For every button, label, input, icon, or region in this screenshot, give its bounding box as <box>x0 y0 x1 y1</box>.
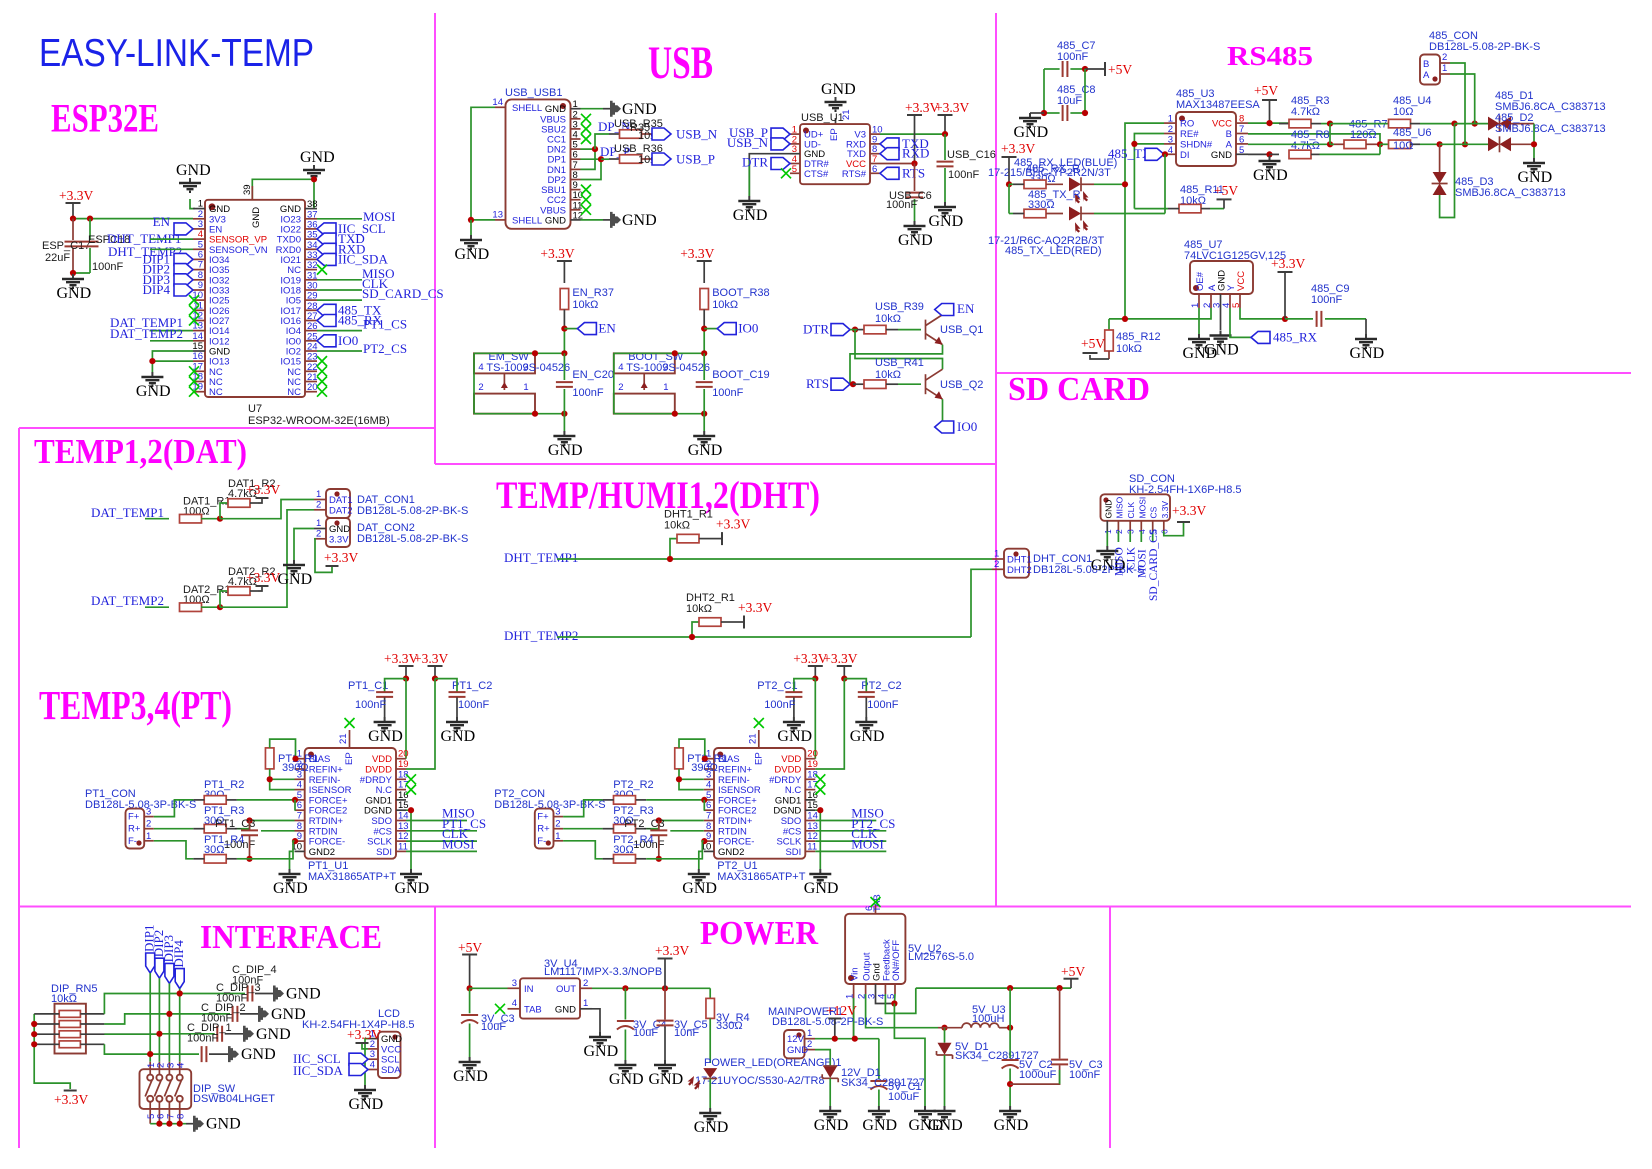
junction <box>166 1121 172 1127</box>
PT2_U1 pin 17 N.C <box>805 789 815 791</box>
power flag +3.3V (RN5) <box>64 1090 77 1092</box>
wire EN node <box>703 329 705 354</box>
ground GND arrow (pin12) <box>603 219 610 221</box>
ground GND (485_C8) <box>1019 113 1041 127</box>
svg-text:SHELL: SHELL <box>512 215 542 226</box>
svg-text:GND: GND <box>300 149 335 166</box>
svg-text:IIC_SDA: IIC_SDA <box>338 251 388 266</box>
junction <box>149 358 155 364</box>
PT2_U1 pin 19 DVDD <box>805 768 815 770</box>
power flag +3.3V (DHT) <box>732 621 744 623</box>
svg-text:BOOT_R38: BOOT_R38 <box>712 287 769 299</box>
ground GND (PT2_C2) <box>855 717 877 731</box>
USB_USB1 pin 3 SBU2 <box>571 128 581 130</box>
capacitor USB_C16 100nF <box>944 134 946 160</box>
svg-text:USB_Q2: USB_Q2 <box>940 379 983 391</box>
485_U7 pin 2 A <box>1210 294 1212 308</box>
wire B row cont <box>1455 123 1489 125</box>
svg-text:4: 4 <box>176 1063 187 1068</box>
wire EN node <box>563 329 565 354</box>
svg-text:10kΩ: 10kΩ <box>712 299 738 311</box>
SD_CON pin 3 CLK <box>1129 521 1131 531</box>
svg-text:100nF: 100nF <box>92 261 123 273</box>
no-connect X (EP) <box>345 718 355 728</box>
wire R3 to A row <box>1329 124 1331 145</box>
PT2_U1 pin 10 GND2 <box>704 850 714 852</box>
svg-text:10kΩ: 10kΩ <box>1116 343 1142 355</box>
no-connect X USB_USB1 pin2 <box>581 114 591 124</box>
resistor USB_R36 10R <box>601 158 609 160</box>
capacitor 5V_C3 100nF <box>1059 988 1061 1059</box>
junction <box>31 1031 37 1037</box>
svg-text:12V: 12V <box>787 1034 805 1045</box>
svg-text:GND: GND <box>898 232 933 249</box>
svg-text:NC: NC <box>287 387 301 398</box>
power flag +3.3V (DHT) <box>710 538 722 540</box>
PT1_U1 pin 16 GND1 <box>396 799 406 801</box>
svg-text:MAX13487EESA: MAX13487EESA <box>1176 99 1260 111</box>
U7 pin 21 NC <box>305 381 317 383</box>
wire CLK (pin30) <box>317 289 362 291</box>
svg-text:+3.3V: +3.3V <box>324 550 358 565</box>
wire DGND to gnd <box>406 810 411 869</box>
U7 pin 27 IO16 <box>305 320 317 322</box>
svg-text:8: 8 <box>176 1114 187 1119</box>
U7 pin 36 IO22 <box>305 228 317 230</box>
wire DN2/DN1 join <box>581 149 596 169</box>
U7 pin 2 3V3 <box>193 218 205 220</box>
U7 pin 30 IO18 <box>305 289 317 291</box>
IC U7 ESP32-WROOM-32E body <box>205 200 305 397</box>
svg-text:DSWB04LHGET: DSWB04LHGET <box>193 1093 275 1105</box>
wire RN row1 to cap row1 <box>104 994 179 1014</box>
net flag DIP2 (pin7) <box>174 264 193 276</box>
svg-text:NC: NC <box>209 387 223 398</box>
ground GND (SD_CON) <box>1096 546 1118 560</box>
svg-text:21: 21 <box>338 733 349 744</box>
svg-text:GND: GND <box>57 285 92 302</box>
wire to gnd <box>703 414 705 431</box>
junction <box>147 1051 153 1057</box>
PT1_U1 pin 9 FORCE- <box>295 840 305 842</box>
SD_CON pin 4 MOSI <box>1140 521 1142 531</box>
svg-text:+3.3V: +3.3V <box>738 600 772 615</box>
wire SDI MOSI <box>406 850 477 852</box>
svg-text:3.3V: 3.3V <box>329 535 349 546</box>
wire cap row 2 <box>169 1013 230 1015</box>
5V_U2 pin 5 ON#/OFF <box>894 984 896 994</box>
svg-text:8: 8 <box>1239 114 1244 125</box>
wire DVDD rail <box>815 679 844 769</box>
power flag +5V (485_C7) <box>1085 68 1105 70</box>
wire DHT_TEMP1 row <box>557 558 971 560</box>
no-connect X pin5 <box>781 168 791 178</box>
svg-text:+3.3V: +3.3V <box>680 246 714 261</box>
junction <box>592 146 598 152</box>
junction <box>468 217 474 223</box>
svg-text:SK34_C2891727: SK34_C2891727 <box>841 1077 925 1089</box>
svg-text:TS-1009S-04526: TS-1009S-04526 <box>626 362 710 374</box>
USB_USB1 pin 1 GND <box>571 108 581 110</box>
junction <box>217 604 223 610</box>
svg-text:GND: GND <box>850 728 885 745</box>
PT1_U1 pin 2 REFIN+ <box>295 768 305 770</box>
U7 pin 32 NC <box>305 269 317 271</box>
USB_U1 pin 2 UD- <box>790 143 800 145</box>
485_U7 pin 4 Y <box>1229 294 1231 308</box>
svg-text:F+: F+ <box>537 812 549 823</box>
wire RTDIN stub <box>670 830 704 832</box>
wire PT2_CS (pin24) <box>317 350 362 352</box>
svg-text:VCC: VCC <box>1236 271 1247 291</box>
ground GND (PT1_U1 DGND) <box>400 869 422 883</box>
svg-text:EN_C20: EN_C20 <box>572 369 614 381</box>
485_CON pin 1 A <box>1440 73 1450 75</box>
svg-text:+3.3V: +3.3V <box>347 1027 381 1042</box>
wire Q1 emitter to RTS node <box>850 345 943 385</box>
U7 pin 4 SENSOR_VP <box>193 238 205 240</box>
svg-text:GND: GND <box>349 1096 384 1113</box>
wire Y to 485_RX flag <box>1230 308 1251 337</box>
svg-text:DHT1: DHT1 <box>1007 555 1032 566</box>
svg-text:POWER_LED(OREANGE)1: POWER_LED(OREANGE)1 <box>704 1057 842 1069</box>
wire DHT1 to CON pin1 <box>971 558 992 560</box>
U7 pin 12 IO27 <box>193 320 205 322</box>
svg-text:+3.3V: +3.3V <box>246 482 280 497</box>
ground GND (5V_U2) <box>914 1106 936 1120</box>
svg-text:7: 7 <box>1239 124 1244 135</box>
junction <box>1082 110 1088 116</box>
U7 pin 15 GND <box>193 350 205 352</box>
DIP_RN5 resistor 4 <box>59 1041 80 1048</box>
svg-text:B: B <box>1423 59 1429 70</box>
svg-text:MOSI: MOSI <box>1137 497 1147 519</box>
svg-text:PT1_CS: PT1_CS <box>363 317 407 332</box>
wire cap row 1 <box>180 993 245 995</box>
junction <box>532 411 538 417</box>
svg-text:330Ω: 330Ω <box>716 1020 743 1032</box>
junction <box>817 807 823 813</box>
wire 12V row <box>815 1038 879 1040</box>
wire VCC row <box>1248 122 1289 124</box>
svg-text:GND: GND <box>286 986 321 1003</box>
ground GND (3V_C3) <box>459 1057 481 1071</box>
DIP_RN5 resistor 1 <box>59 1011 80 1018</box>
junction <box>1377 141 1383 147</box>
DIP_SW pole 3 <box>168 1062 170 1074</box>
svg-text:100nF: 100nF <box>712 387 743 399</box>
svg-text:A: A <box>1226 139 1233 150</box>
svg-text:GND: GND <box>256 1026 291 1043</box>
wire R1 bottom to REFIN-/ISENSOR <box>679 769 704 790</box>
485_U7 pin 3 GND <box>1220 294 1222 308</box>
PT1_U1 pin 4 ISENSOR <box>295 789 305 791</box>
svg-text:IN: IN <box>524 984 534 995</box>
svg-text:1: 1 <box>1168 114 1173 125</box>
svg-text:+3.3V: +3.3V <box>246 570 280 585</box>
svg-text:GND: GND <box>688 442 723 459</box>
wire pin15 GND <box>152 351 193 372</box>
junction <box>1327 121 1333 127</box>
no-connect X pin10 <box>189 295 199 305</box>
net flag IO0 <box>704 328 717 330</box>
svg-text:EASY-LINK-TEMP: EASY-LINK-TEMP <box>39 32 314 75</box>
U7 pin 16 IO13 <box>193 360 205 362</box>
U7 pin 28 IO17 <box>305 309 317 311</box>
svg-text:4: 4 <box>512 998 517 1009</box>
wire A row to U4/U6 <box>1330 143 1334 145</box>
wire switch bottom <box>614 413 704 415</box>
svg-text:485_U6: 485_U6 <box>1393 127 1432 139</box>
resistor USB_R41 10k <box>853 383 864 385</box>
svg-text:USB: USB <box>648 37 713 89</box>
wire DIP2 column <box>158 978 160 1062</box>
U7 pin 13 IO14 <box>193 330 205 332</box>
wire +5V node down <box>1009 988 1011 1058</box>
junction <box>156 1031 162 1037</box>
wire cap row 4 <box>150 1053 199 1055</box>
svg-text:USB_P: USB_P <box>676 152 715 167</box>
svg-text:3.3V: 3.3V <box>1160 501 1170 519</box>
svg-text:GND: GND <box>206 1116 241 1133</box>
ground GND arrow (pin1) <box>603 108 610 110</box>
U7 pin 35 TXD0 <box>305 238 317 240</box>
net flag EN (Q1 collector) <box>935 304 954 316</box>
USB_USB1 pin 4 CC1 <box>571 138 581 140</box>
3V_U4 pin 4 TAB <box>508 1008 521 1010</box>
svg-text:SMBJ6.8CA_C383713: SMBJ6.8CA_C383713 <box>1455 187 1566 199</box>
svg-text:MAX31865ATP+T: MAX31865ATP+T <box>308 871 396 883</box>
wire DIP3 column <box>168 983 170 1061</box>
svg-text:100nF: 100nF <box>764 699 795 711</box>
svg-text:GND: GND <box>777 728 812 745</box>
USB_USB1 pin 5 DN2 <box>571 148 581 150</box>
connector DHT_CON1 body <box>1004 549 1029 578</box>
junction <box>1162 151 1168 157</box>
resistor 485_TX_R 330R <box>1009 213 1013 215</box>
PT2_U1 pin 4 ISENSOR <box>704 789 714 791</box>
svg-text:EN: EN <box>153 214 171 229</box>
svg-text:DAT_TEMP2: DAT_TEMP2 <box>110 326 183 341</box>
PT2_CON pin 1 F- <box>554 840 564 842</box>
PT2_U1 pin 20 VDD <box>805 758 815 760</box>
wire A row <box>1248 143 1330 145</box>
USB_U1 pin 10 V3 <box>870 133 880 135</box>
svg-text:20: 20 <box>307 382 318 393</box>
U7 pin 19 NC <box>193 391 205 393</box>
junction <box>676 776 682 782</box>
svg-text:R+: R+ <box>537 824 550 835</box>
wire c7/c8 left <box>1043 69 1045 113</box>
junction <box>672 411 678 417</box>
USB_U1 pin 5 CTS# <box>790 172 800 174</box>
USB_U1 pin 3 GND <box>790 153 800 155</box>
junction <box>891 1000 897 1006</box>
wire c7/c8 right <box>1084 69 1086 113</box>
pin 39 GND top <box>251 186 253 200</box>
wire Vin to +12V rail <box>853 994 855 1039</box>
wire DAT_TEMP1 to pin13 <box>150 330 193 332</box>
junction <box>292 838 298 844</box>
svg-text:DIP4: DIP4 <box>143 282 171 297</box>
power flag +5V (485_R11) <box>1223 199 1225 208</box>
svg-text:+3.3V: +3.3V <box>935 100 969 115</box>
PT1_U1 pin 1 BIAS <box>295 758 305 760</box>
pin 21 EP top <box>349 730 351 748</box>
ground GND arrow (DIP_SW) <box>186 1123 193 1125</box>
wire 3V3 net <box>73 218 193 220</box>
svg-text:CS: CS <box>1149 506 1159 518</box>
wire DIP1 column <box>149 973 151 1062</box>
net flag DIP4 (pin9) <box>174 284 193 296</box>
capacitor USB_C6 100nF <box>914 164 916 192</box>
svg-text:485_R12: 485_R12 <box>1116 331 1161 343</box>
SD_CON pin 5 CS <box>1152 521 1154 531</box>
svg-text:IIC_SDA: IIC_SDA <box>293 1063 343 1078</box>
PT1_U1 pin 14 SDO <box>396 820 406 822</box>
svg-text:+3.3V: +3.3V <box>823 651 857 666</box>
svg-text:+3.3V: +3.3V <box>1001 141 1035 156</box>
PT2_U1 pin 16 GND1 <box>805 799 815 801</box>
svg-text:+5V: +5V <box>1108 62 1132 77</box>
wire B row <box>1248 134 1380 144</box>
svg-text:GND: GND <box>584 1043 619 1060</box>
junction <box>467 985 473 991</box>
resistor 485_R8 4.7k body <box>1270 153 1280 155</box>
no-connect X pin20 <box>317 387 327 397</box>
svg-text:1: 1 <box>1442 63 1447 74</box>
3V_U4 pin 3 IN <box>508 987 521 989</box>
svg-text:1: 1 <box>316 518 321 529</box>
net flag USB_P <box>652 153 671 165</box>
svg-text:1: 1 <box>807 1028 812 1039</box>
485_U3 pin 8 VCC <box>1236 122 1248 124</box>
svg-text:SDI: SDI <box>376 847 392 858</box>
no-connect X #DRDY <box>406 774 416 784</box>
PT2_U1 pin 12 SCLK <box>805 840 815 842</box>
junction <box>701 838 707 844</box>
svg-text:PT1_C1: PT1_C1 <box>348 680 388 692</box>
svg-text:IO0: IO0 <box>338 333 358 348</box>
svg-text:100nF: 100nF <box>948 169 979 181</box>
svg-text:RE#: RE# <box>1180 129 1199 140</box>
svg-text:SDI: SDI <box>785 847 801 858</box>
junction <box>1057 985 1063 991</box>
wire MOSI (pin37) <box>317 218 362 220</box>
wire R1 top loop <box>679 739 705 759</box>
wire SDO MISO <box>406 820 467 822</box>
net flag 485_RX <box>1251 331 1270 343</box>
PT1_U1 pin 5 FORCE+ <box>295 799 305 801</box>
IC 5V_U2 LM2576 body <box>845 914 905 984</box>
svg-text:SHDN#: SHDN# <box>1180 139 1213 150</box>
svg-text:3: 3 <box>146 807 151 818</box>
svg-text:LM2576S-5.0: LM2576S-5.0 <box>908 951 974 963</box>
wire to ground <box>73 272 90 274</box>
svg-text:RTS: RTS <box>806 376 829 391</box>
PT1_CON pin 2 R+ <box>144 828 154 830</box>
DIP_RN5 resistor 2 <box>59 1021 80 1028</box>
wire VDD rail <box>814 679 816 759</box>
svg-text:1: 1 <box>523 382 528 393</box>
ground GND (5V_C2) <box>999 1106 1021 1120</box>
junction <box>656 817 662 823</box>
svg-text:RO: RO <box>1180 119 1194 130</box>
U7 pin 37 IO23 <box>305 218 317 220</box>
U7 pin 5 SENSOR_VN <box>193 248 205 250</box>
svg-text:10kΩ: 10kΩ <box>875 369 901 381</box>
junction <box>598 156 604 162</box>
svg-text:GND: GND <box>787 1045 808 1056</box>
5V_U2 pin 3 Gnd <box>875 984 877 994</box>
junction <box>267 776 273 782</box>
ground GND arrow (row 2) <box>258 1006 269 1022</box>
svg-text:RS485: RS485 <box>1227 41 1313 71</box>
wire R1 bottom to REFIN-/ISENSOR <box>270 769 295 790</box>
PT1_U1 pin 10 GND2 <box>295 850 305 852</box>
wire CON2 pin1 gnd <box>294 529 314 561</box>
U7 pin 10 IO25 <box>193 299 205 301</box>
IC PT1_U1 MAX31865 body <box>305 748 396 859</box>
ground GND (3V_C5) <box>654 1060 676 1074</box>
U7 pin 26 IO4 <box>305 330 317 332</box>
wire Feedback loop <box>885 988 915 1013</box>
svg-text:PT2_CS: PT2_CS <box>363 341 407 356</box>
USB_USB1 pin 6 DP1 <box>571 158 581 160</box>
wire switch left <box>473 353 475 413</box>
no-connect X USB_USB1 pin11 <box>581 205 591 215</box>
U7 pin 20 NC <box>305 391 317 393</box>
junction <box>1266 151 1272 157</box>
wire RO (pin1) down to U7 bus <box>1125 123 1164 319</box>
U7 pin 7 IO35 <box>193 269 205 271</box>
no-connect X N.C <box>406 785 416 795</box>
wire SHDN# (pin3) <box>1134 143 1164 145</box>
junction <box>1282 316 1288 322</box>
svg-text:PT2_C2: PT2_C2 <box>861 680 901 692</box>
capacitor 3V_C4 10uF (polarized) <box>624 988 626 1019</box>
wire switch left <box>613 353 615 413</box>
svg-text:10nF: 10nF <box>674 1027 699 1039</box>
resistor BOOT_R38 10k <box>700 289 709 310</box>
PT2_U1 pin 14 SDO <box>805 820 815 822</box>
switch EM_SW body <box>474 353 535 373</box>
junction <box>832 1036 838 1042</box>
no-connect X USB_USB1 pin3 <box>581 124 591 134</box>
svg-text:+3.3V: +3.3V <box>655 943 689 958</box>
capacitor EN_C20 100nF <box>563 353 565 380</box>
svg-text:21: 21 <box>841 109 852 120</box>
wire R4 to FORCE- <box>646 858 659 860</box>
U7 pin 8 IO32 <box>193 279 205 281</box>
U7 pin 6 IO34 <box>193 258 205 260</box>
ground GND (pin15/16) <box>141 372 163 386</box>
5V_U2 pin 2 Output <box>865 984 867 994</box>
svg-text:GND: GND <box>994 1117 1029 1134</box>
svg-text:2: 2 <box>583 978 588 989</box>
PT2_U1 pin 15 DGND <box>805 809 815 811</box>
PT1_U1 pin 7 RTDIN+ <box>295 820 305 822</box>
svg-text:MAX31865ATP+T: MAX31865ATP+T <box>717 871 805 883</box>
svg-text:10kΩ: 10kΩ <box>875 313 901 325</box>
svg-text:USB_USB1: USB_USB1 <box>505 87 562 99</box>
ground GND (EN_R37) <box>553 431 575 445</box>
wire SCLK CLK <box>815 840 886 842</box>
svg-text:RTS#: RTS# <box>842 169 867 180</box>
junction <box>31 1021 37 1027</box>
svg-text:MOSI: MOSI <box>442 836 475 851</box>
PT1_U1 pin 3 REFIN- <box>295 778 305 780</box>
